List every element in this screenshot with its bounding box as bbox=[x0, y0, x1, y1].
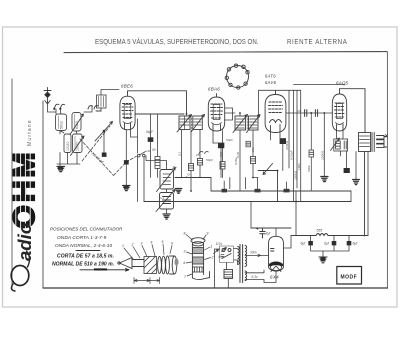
wire V4 pins into box bbox=[337, 131, 344, 140]
svg-text:9: 9 bbox=[207, 232, 209, 236]
spacer rings bbox=[158, 256, 177, 274]
second drop from OPT bbox=[367, 152, 369, 236]
cap drop 1 bbox=[150, 114, 152, 137]
ground G7 bbox=[319, 257, 327, 263]
IFT1 drops bbox=[182, 130, 201, 178]
svg-text:POSICIONES DEL CONMUTADOR: POSICIONES DEL CONMUTADOR bbox=[50, 227, 123, 232]
svg-text:OHM: OHM bbox=[8, 150, 41, 229]
resistor R3 bbox=[197, 159, 202, 166]
svg-text:300: 300 bbox=[219, 152, 223, 157]
ground G3 bbox=[175, 189, 182, 194]
IFT2 primary coil bbox=[233, 115, 248, 133]
svg-text:50: 50 bbox=[152, 148, 156, 152]
svg-text:1: 1 bbox=[211, 245, 213, 249]
filter cap branch 3 bbox=[348, 236, 350, 242]
dimension arrows bbox=[134, 278, 160, 284]
cap C1 bbox=[148, 137, 154, 142]
filter choke bbox=[316, 234, 328, 236]
output transformer core bbox=[372, 133, 374, 152]
svg-text:3: 3 bbox=[184, 250, 186, 254]
wire below R2 bbox=[190, 171, 192, 192]
svg-text:50pF: 50pF bbox=[226, 138, 234, 142]
extra value smudges bbox=[226, 109, 311, 172]
svg-text:1M: 1M bbox=[146, 149, 151, 153]
svg-text:1MΩ: 1MΩ bbox=[297, 163, 301, 170]
svg-text:MODF: MODF bbox=[341, 275, 358, 281]
padder dashed link 1 bbox=[82, 126, 110, 161]
resistor R2 bbox=[188, 164, 193, 171]
V1 plate drop bbox=[131, 129, 138, 137]
wafer switch disc bbox=[225, 64, 249, 89]
rotated value labels bbox=[285, 140, 301, 181]
svg-text:5: 5 bbox=[162, 240, 164, 244]
IFT2 secondary coil bbox=[247, 115, 261, 133]
hooks below coupling box bbox=[88, 106, 101, 111]
junction dot bbox=[310, 112, 312, 114]
heater leads bbox=[245, 270, 276, 283]
cap C2 bbox=[218, 143, 224, 148]
antenna plug hooks bbox=[54, 104, 65, 109]
wire plug to primary bbox=[234, 249, 238, 265]
wire V1 plate row bbox=[135, 113, 184, 115]
wire coupling box to V1 grid bbox=[84, 90, 119, 113]
logo: Murtane small vertical text bbox=[27, 119, 33, 146]
former body bbox=[192, 244, 203, 275]
ground G4 bbox=[163, 214, 170, 219]
MODF model box bbox=[337, 267, 362, 285]
trimmer arrow L3 bbox=[70, 114, 84, 135]
ground G2 bbox=[123, 186, 130, 191]
grid leak drop bbox=[309, 113, 314, 191]
wire below C1 bbox=[150, 142, 152, 178]
ink blot bbox=[175, 258, 179, 265]
svg-text:0,05: 0,05 bbox=[236, 152, 240, 158]
cap C10 bbox=[102, 153, 107, 157]
svg-text:300v: 300v bbox=[250, 251, 257, 255]
output transformer secondary bbox=[377, 135, 388, 148]
svg-text:6BE6: 6BE6 bbox=[121, 84, 133, 89]
padder dashed link 2 (7,5-20 pF) bbox=[80, 139, 137, 176]
svg-text:8: 8 bbox=[184, 232, 186, 236]
V3 pin wires bbox=[271, 132, 283, 171]
power transformer core bbox=[240, 245, 243, 283]
svg-text:110v: 110v bbox=[216, 242, 223, 246]
grid cap drop bbox=[103, 131, 105, 153]
shaft cone bbox=[118, 258, 144, 269]
oscillator trimmer 1 bbox=[157, 168, 176, 192]
resistor drops of V3 bbox=[289, 90, 297, 201]
transformer primary winding bbox=[238, 247, 240, 265]
cathode arrow bbox=[331, 138, 340, 151]
former leader lines bbox=[186, 235, 211, 277]
frame bottom bbox=[43, 287, 387, 289]
transformer heater winding bbox=[245, 271, 247, 281]
left mains drop bbox=[215, 249, 220, 288]
winding band 1 bbox=[192, 248, 203, 254]
filter line bbox=[291, 235, 368, 237]
IFT2 core dashed bbox=[246, 116, 248, 131]
bus mid bbox=[211, 190, 351, 192]
cap curls bbox=[199, 152, 208, 154]
filter bottom rail bbox=[311, 245, 349, 256]
electrolytic + cap bbox=[256, 227, 271, 239]
B+ drop from OPT bbox=[364, 152, 366, 236]
antenna lead-in bbox=[44, 88, 51, 105]
wires trimmers bbox=[166, 164, 168, 214]
svg-text:4: 4 bbox=[183, 261, 185, 265]
V5 anode marks bbox=[271, 249, 275, 252]
resistor R5 bbox=[250, 157, 258, 178]
V5 cathode wedge bbox=[269, 262, 282, 266]
wires coil bottoms to ground bbox=[57, 131, 80, 167]
IFT1 secondary coil bbox=[191, 115, 205, 133]
bus verticals bbox=[211, 178, 351, 202]
grid resistor drop bbox=[323, 113, 325, 176]
filter cap branch 1 bbox=[310, 236, 312, 242]
svg-text:6AT6: 6AT6 bbox=[265, 74, 276, 79]
bus B+ short bbox=[175, 177, 211, 179]
svg-text:20: 20 bbox=[296, 109, 301, 113]
mains plug box bbox=[220, 246, 234, 263]
svg-text:0,01μF: 0,01μF bbox=[290, 149, 294, 160]
winding band 2 bbox=[192, 257, 203, 264]
note rule 2 with arrow bbox=[80, 268, 129, 271]
cap on bus 2 bbox=[255, 189, 261, 193]
coil L3 (osc, short wave) bbox=[72, 113, 81, 132]
svg-text:adio: adio bbox=[14, 223, 35, 261]
title text bbox=[95, 37, 347, 47]
svg-text:6,3v: 6,3v bbox=[252, 275, 258, 279]
svg-text:500k: 500k bbox=[307, 165, 311, 172]
svg-text:RIENTE ALTERNA: RIENTE ALTERNA bbox=[287, 39, 347, 46]
volume pot track bbox=[258, 171, 278, 202]
frame left bbox=[42, 101, 44, 288]
tube V4 6AQ5 bbox=[332, 94, 346, 131]
6uF labels bbox=[301, 242, 359, 246]
oscillator trimmer 2 bbox=[156, 190, 175, 212]
labels 6AT6 6AV6 bbox=[265, 74, 277, 86]
V4 cathode network box bbox=[334, 139, 348, 151]
V5 top feed bbox=[275, 228, 277, 236]
cap on V1 cathode bbox=[124, 160, 129, 164]
svg-text:.04μF: .04μF bbox=[145, 130, 154, 134]
cap C4 bbox=[305, 110, 307, 117]
mains dropper cap bbox=[224, 270, 233, 279]
svg-text:6AV6: 6AV6 bbox=[265, 80, 277, 85]
svg-text:555: 555 bbox=[317, 229, 323, 233]
wire V1 grid cap to IFT1 bbox=[128, 91, 187, 115]
svg-text:50pF: 50pF bbox=[206, 158, 214, 162]
verticals above mid bus bbox=[224, 178, 286, 189]
coupling line V3 to V4 bbox=[286, 112, 333, 114]
svg-text:ONDA CORTA 1-3-7-9: ONDA CORTA 1-3-7-9 bbox=[57, 235, 107, 241]
shield box right drop bbox=[300, 90, 302, 201]
SECTION: switch positions note bbox=[50, 227, 123, 249]
svg-text:CORTA DE 57 a 18,5 m.: CORTA DE 57 a 18,5 m. bbox=[57, 254, 114, 260]
IFT1 primary coil bbox=[177, 115, 192, 133]
wire plug down to cap bbox=[227, 263, 229, 289]
heater bus marks on mid bus bbox=[222, 189, 228, 193]
note rule 1 bbox=[76, 250, 100, 252]
ground G5 bbox=[321, 177, 328, 182]
svg-text:25k: 25k bbox=[251, 147, 255, 153]
volume pot wiper arrow bbox=[263, 164, 273, 175]
coil L2 (antenna, broadcast) bbox=[64, 134, 71, 153]
pilot lamp marks bbox=[214, 248, 227, 260]
svg-text:6: 6 bbox=[171, 242, 173, 246]
svg-text:B+: B+ bbox=[173, 165, 177, 169]
wire below C2 bbox=[213, 143, 224, 178]
drop to ground from OPT bbox=[355, 152, 357, 180]
band switch contacts bbox=[137, 152, 145, 157]
svg-text:45v: 45v bbox=[218, 255, 224, 259]
wire V2 plate to IFT2 bbox=[225, 113, 240, 116]
svg-text:0,1: 0,1 bbox=[178, 151, 182, 156]
ground G6 bbox=[353, 180, 360, 185]
filter cap branch 2 bbox=[333, 236, 335, 242]
top wire to output grid bbox=[294, 84, 346, 86]
frame right bbox=[386, 52, 388, 288]
svg-text:6AQ5: 6AQ5 bbox=[336, 81, 349, 86]
bus low bbox=[144, 201, 351, 203]
grid coupling box bbox=[97, 95, 107, 108]
cap C6 bbox=[344, 168, 350, 173]
HV lead with arrow bbox=[245, 254, 269, 256]
wire antenna to coils bbox=[48, 104, 62, 114]
coil L1 (antenna, short wave) bbox=[56, 114, 67, 131]
V5 output to filter bbox=[284, 236, 292, 249]
V2 cathode drop bbox=[212, 131, 214, 144]
shield box top bbox=[259, 90, 301, 118]
resistor R1 bbox=[155, 157, 160, 169]
svg-text:6X4: 6X4 bbox=[270, 275, 279, 280]
tuning arrow across coils bbox=[95, 122, 113, 142]
resistor drop 2 bbox=[157, 114, 159, 157]
transformer HV winding bbox=[245, 246, 247, 267]
V2 screen loop bbox=[225, 108, 233, 120]
resistor R6 bbox=[246, 141, 250, 147]
svg-text:3: 3 bbox=[141, 242, 143, 246]
label 7,5-20 pF bbox=[90, 151, 105, 165]
svg-text:220kΩ: 220kΩ bbox=[320, 150, 324, 161]
logo: Radio script bbox=[11, 223, 35, 291]
winding band 3 bbox=[192, 267, 203, 272]
cap C7 bbox=[308, 241, 313, 245]
tube V3 6AV6 bbox=[265, 91, 286, 133]
svg-text:Murtane: Murtane bbox=[27, 119, 33, 146]
coil L4 (osc, broadcast) bbox=[73, 134, 83, 153]
junction dots bbox=[186, 112, 366, 236]
cap on bus 3 bbox=[284, 189, 290, 193]
svg-text:.05: .05 bbox=[195, 153, 200, 157]
svg-text:2: 2 bbox=[131, 243, 134, 247]
cap C9 bbox=[347, 241, 352, 245]
svg-text:0,1: 0,1 bbox=[160, 196, 165, 200]
svg-text:ONDA NORMAL, 2-4-6-10: ONDA NORMAL, 2-4-6-10 bbox=[55, 243, 112, 248]
tube V2 6BA6 bbox=[208, 94, 224, 131]
wire switch to bus bbox=[138, 157, 145, 202]
svg-text:ESQUEMA 5 VÁLVULAS, SUPERHETER: ESQUEMA 5 VÁLVULAS, SUPERHETERODINO, DOS… bbox=[95, 37, 259, 47]
resistor R4 bbox=[220, 131, 225, 178]
title rule / frame top bbox=[64, 52, 387, 53]
leader lines with numbers bbox=[124, 244, 172, 259]
svg-text:2: 2 bbox=[211, 256, 214, 260]
V4 plate loop to OPT bbox=[340, 89, 366, 133]
wire below R3 bbox=[199, 165, 201, 178]
logo band rule bbox=[11, 79, 13, 289]
svg-text:5012: 5012 bbox=[60, 121, 64, 129]
cap C8 bbox=[332, 241, 337, 245]
svg-text:250kΩ: 250kΩ bbox=[293, 170, 297, 181]
svg-text:10010: 10010 bbox=[66, 141, 70, 151]
output transformer primary bbox=[359, 133, 371, 152]
junction dot bbox=[103, 130, 106, 133]
small value smudge labels across midsection bbox=[146, 149, 240, 200]
tube V1 6BE6 bbox=[120, 93, 135, 130]
wire osc row bbox=[146, 156, 167, 164]
rectifier tube V5 6X4 envelope bbox=[269, 236, 284, 271]
drop below cathode box bbox=[341, 151, 347, 168]
trimmer arrow L4 bbox=[71, 136, 85, 156]
wire below R1 bbox=[157, 169, 159, 178]
logo: OHM wordmark bbox=[8, 150, 41, 229]
former bottom bracket bbox=[192, 272, 209, 280]
former top flange bbox=[191, 238, 205, 246]
svg-text:NORMAL DE 510 a 190 m.: NORMAL DE 510 a 190 m. bbox=[52, 262, 114, 268]
top rail power bbox=[251, 227, 291, 229]
cap C3 under V3 bbox=[280, 138, 286, 144]
drop bus to power rail bbox=[251, 191, 296, 236]
ground G1 bbox=[57, 167, 65, 172]
IFT2 drops bbox=[240, 130, 253, 191]
IFT1 core dashed bbox=[190, 115, 192, 131]
V5 heater vee bbox=[271, 266, 281, 272]
svg-text:4: 4 bbox=[151, 241, 153, 245]
svg-text:6BA6: 6BA6 bbox=[208, 87, 220, 92]
wire V1 side bus down bbox=[137, 119, 139, 153]
svg-text:1: 1 bbox=[122, 244, 124, 248]
hatched drum bbox=[144, 257, 157, 274]
svg-text:7: 7 bbox=[184, 275, 186, 279]
V1 cathode drop bbox=[125, 130, 127, 186]
cap C5 bbox=[315, 110, 317, 117]
